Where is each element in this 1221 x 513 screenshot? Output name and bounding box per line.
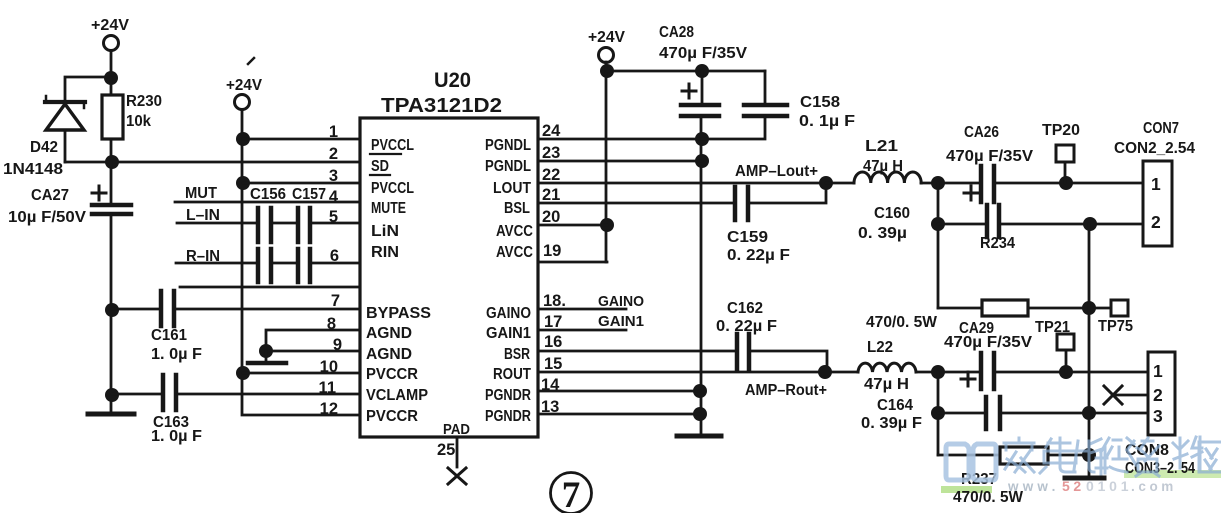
svg-text:9: 9 [333,336,342,354]
wire C159 to LOUT node [750,183,826,203]
capacitor CA28 [681,71,719,116]
wire to IC pin 3 [243,182,360,185]
svg-text:+24V: +24V [91,17,130,34]
svg-text:C164: C164 [877,397,913,414]
svg-text:C162: C162 [727,300,763,317]
wire 470 ohm resistor row (left channel) [938,307,982,310]
svg-text:12: 12 [320,400,338,418]
svg-text:47µ H: 47µ H [863,158,903,175]
junction node CA28 top [695,64,709,78]
wire IC pin 8 AGND [266,330,360,351]
power terminal +24V (third) [599,48,614,63]
svg-text:11: 11 [319,379,336,397]
svg-text:PGNDL: PGNDL [485,137,531,154]
wire IC pin 21 BSL to C159 [538,202,733,205]
svg-text:GAINO: GAINO [486,305,531,322]
junction node PGNDR pin14 [693,384,707,398]
wire AGND node to IC pin 9 [266,350,360,353]
svg-text:0. 22µ F: 0. 22µ F [716,318,777,335]
svg-text:MUT: MUT [185,185,218,202]
svg-text:RIN: RIN [371,244,399,261]
svg-text:C160: C160 [874,205,910,222]
wire IC pin 20 to column [538,224,607,227]
junction node C163 [105,388,119,402]
wire C164 row left [938,412,984,415]
svg-text:6: 6 [330,247,339,265]
wire +24V column to pin 12 [242,110,360,415]
svg-text:CON2_2.54: CON2_2.54 [1114,140,1195,157]
junction node AVCC pin20 [600,218,614,232]
svg-text:PAD: PAD [443,421,470,438]
resistor R230 [102,95,123,139]
junction node pin1 PVCCL [236,132,250,146]
svg-text:AMP–Rout+: AMP–Rout+ [745,382,827,399]
wire rail to C161 [112,308,159,311]
svg-text:R234: R234 [980,235,1015,252]
svg-text:.com: .com [1131,479,1177,494]
junction node SD [105,155,119,169]
svg-text:R–IN: R–IN [186,248,220,265]
svg-text:L22: L22 [867,339,893,356]
svg-text:CA26: CA26 [964,124,999,141]
wire R237 row [938,454,1000,457]
wire left ground rail [110,214,113,414]
capacitor (C156 lower section) [258,249,271,282]
wire C164 row to CON8 pin3 [1002,412,1148,415]
svg-text:C157: C157 [292,186,326,203]
capacitor C161 [161,291,174,326]
junction node AMP-Lout+ [819,176,833,190]
power terminal +24V (second) [235,95,250,110]
svg-text:24: 24 [542,122,561,140]
svg-text:3: 3 [1153,406,1163,426]
svg-text:15: 15 [544,355,562,373]
capacitor C162 [737,334,749,369]
svg-text:470µ F/35V: 470µ F/35V [659,45,748,62]
wire L21 to CA26 [921,182,979,185]
wire IC pin 18 GAINO stub [538,308,626,311]
inductor L21 [854,172,921,183]
capacitor C157 (top) [298,208,310,242]
junction node PGNDL pin23 [695,154,709,168]
svg-text:13: 13 [541,398,559,416]
test point TP20 [1056,145,1074,183]
wire output column lower [937,372,940,455]
svg-text:MUTE: MUTE [371,200,406,217]
svg-text:BSL: BSL [504,200,530,217]
svg-text:18.: 18. [543,292,566,310]
capacitor CA27 [92,186,131,214]
wire +24V terminal down to node [110,51,113,78]
junction node L21 out [931,176,945,190]
no-connect X at CON8 pin2 [1104,386,1148,404]
connector CON8 [1148,352,1175,435]
wire IC pin 22 LOUT to AMP-Lout+ [538,182,826,185]
svg-text:CA28: CA28 [659,24,694,41]
svg-text:CON7: CON7 [1143,120,1179,137]
wire C163 to IC pin 11 VCLAMP [178,393,360,396]
junction node AMP-Rout+ [818,365,832,379]
svg-text:U20: U20 [434,69,471,92]
svg-text:VCLAMP: VCLAMP [366,387,428,404]
svg-text:PVCCL: PVCCL [371,180,414,197]
svg-text:0. 22µ F: 0. 22µ F [727,247,790,264]
junction node pin10 PVCCR [236,366,250,380]
wire IC pin 14 to column [538,390,700,393]
svg-text:PGNDL: PGNDL [485,158,531,175]
svg-text:ROUT: ROUT [493,366,531,383]
svg-text:470µ F/35V: 470µ F/35V [944,334,1033,351]
svg-text:TP20: TP20 [1042,122,1080,139]
svg-text:19: 19 [543,242,561,260]
wire IC pin 16 BSR to C162 [538,350,735,353]
wire +24V to CA28 and C158 [607,70,765,73]
capacitor C163 [163,375,176,410]
wire between lower caps [273,262,296,265]
ground (AGND) [248,351,286,363]
svg-text:BSR: BSR [504,346,530,363]
svg-text:PVCCR: PVCCR [366,408,418,425]
svg-text:1: 1 [329,123,338,141]
ground (PGND column) [677,434,721,439]
sheet number circled 7 [551,473,592,513]
wire node to D42 cathode [65,77,111,100]
wire PAD pin 25 stub [456,437,459,467]
junction node C160 row [931,217,945,231]
svg-text:L–IN: L–IN [186,207,220,224]
svg-text:+24V: +24V [588,29,626,46]
wire to IC pin 10 [243,372,360,375]
svg-text:2: 2 [1153,385,1163,405]
junction node PGNDR pin13 [693,407,707,421]
svg-text:GAIN1: GAIN1 [486,325,531,342]
svg-text:1. 0µ F: 1. 0µ F [151,346,202,363]
svg-text:LiN: LiN [371,223,399,240]
watermark book logo [946,444,996,480]
junction node TP21 [1059,365,1073,379]
svg-text:TPA3121D2: TPA3121D2 [381,95,502,117]
junction node resistor/column [1082,301,1096,315]
svg-text:PGNDR: PGNDR [485,408,531,425]
wire IC pin 13 to column [538,413,700,416]
svg-text:PVCCR: PVCCR [366,366,418,383]
svg-text:TP21: TP21 [1035,319,1070,336]
inductor L22 [858,363,916,372]
wire R234 to CON7 pin2 [1001,223,1143,226]
wire C156 to C157 (top row) [273,222,296,225]
junction node AGND [259,344,273,358]
capacitor C164 row [986,397,1000,429]
wire lower cap to IC pin 6 RIN [312,262,360,265]
wire right return column [1088,224,1091,478]
svg-text:22: 22 [542,166,560,184]
wire CA26 to CON7 pin1 [996,182,1143,185]
wire L-IN to C156 [177,222,256,225]
svg-text:AGND: AGND [366,325,412,342]
test point TP75 [1111,300,1128,316]
svg-text:LOUT: LOUT [493,180,531,197]
capacitor C159 [735,187,748,220]
junction node L22 out [931,365,945,379]
wire R-IN to cap [176,262,256,265]
wire IC pin 17 GAIN1 stub [538,329,626,332]
svg-text:20: 20 [542,208,560,226]
wire PGND column [700,116,703,435]
svg-text:5: 5 [329,208,338,226]
wire output column upper [937,183,940,308]
wire R237 to column [1048,454,1089,457]
wire to L21 [826,182,854,185]
svg-text:470µ F/35V: 470µ F/35V [946,148,1034,165]
svg-text:0. 39µ: 0. 39µ [858,225,907,242]
svg-text:0101: 0101 [1086,478,1132,494]
svg-text:L21: L21 [865,138,898,155]
junction node at +24V / R230 / D42 [104,71,118,85]
svg-text:23: 23 [542,144,560,162]
svg-text:AGND: AGND [366,346,412,363]
svg-text:10k: 10k [126,113,151,130]
test point TP21 [1057,334,1074,372]
svg-text:2: 2 [1151,212,1161,232]
junction node TP20 [1059,176,1073,190]
junction node pin3 PVCCL [236,176,250,190]
svg-text:BYPASS: BYPASS [366,305,431,322]
wire L22 to CA29 [916,371,979,374]
watermark green highlight bar (left) [941,486,992,493]
svg-text:GAIN1: GAIN1 [598,313,644,330]
wire node to resistor R230 [110,78,113,95]
wire rail to C163 [112,393,161,396]
capacitor (C157 lower section) [298,249,310,282]
junction node C164 row [931,406,945,420]
wire IC pin 24 to column [538,138,702,141]
wire IC pin 23 to column [538,160,702,163]
svg-text:0. 1µ F: 0. 1µ F [799,113,855,130]
stray tick mark [248,58,254,64]
junction node right column mid [1082,406,1096,420]
wire +24V column to AVCC pins [605,62,608,262]
capacitor C158 [702,71,787,139]
svg-text:GAINO: GAINO [598,293,644,310]
svg-text:C161: C161 [151,327,187,344]
svg-text:PGNDR: PGNDR [485,387,531,404]
watermark green highlight bar (right) [1124,470,1221,478]
svg-text:CA27: CA27 [31,187,69,204]
capacitor CA26 [964,166,994,202]
svg-text:AVCC: AVCC [496,223,533,240]
svg-text:www.: www. [1007,479,1060,494]
wire to IC pin 1 [243,138,360,141]
svg-text:1: 1 [1151,174,1161,194]
svg-text:17: 17 [544,313,562,331]
resistor R237 [1000,447,1048,464]
wire SD node to IC pin 2 [65,161,360,164]
svg-text:AMP–Lout+: AMP–Lout+ [735,163,818,180]
wire C161 to IC pin 7 BYPASS [176,308,360,311]
wire C157 to IC pin 5 LIN [312,222,360,225]
svg-text:47µ H: 47µ H [864,376,909,393]
svg-text:D42: D42 [30,139,58,156]
svg-text:C156: C156 [250,186,286,203]
underline of SD pin2 [370,174,390,176]
wire C160 row left [938,223,985,226]
svg-text:7: 7 [331,292,340,310]
svg-text:1. 0µ F: 1. 0µ F [151,428,202,445]
svg-text:21: 21 [542,186,560,204]
svg-text:2: 2 [329,145,338,163]
svg-text:PVCCL: PVCCL [371,137,414,154]
diode D42 [45,96,85,162]
underline of PVCCL pin1 [370,153,401,155]
junction node R237/column [1082,448,1096,462]
wire MUT to IC pin 4 MUTE [175,201,360,204]
svg-text:0. 39µ F: 0. 39µ F [861,415,922,432]
svg-text:C159: C159 [727,229,768,246]
svg-text:1: 1 [1153,361,1163,381]
wire SD node down to CA27 [110,162,113,203]
wire IC pin 19 to column [538,261,607,264]
svg-text:25: 25 [437,441,455,459]
wire unnamed net above BYPASS [180,286,360,289]
junction node PGNDL pin24 [695,132,709,146]
ground (right column) [1065,476,1104,481]
wire CA29 to CON8 pin1 [996,371,1148,374]
junction node C161 [105,303,119,317]
svg-text:14: 14 [541,376,560,394]
resistor 470/0.5W (left channel) [982,300,1028,316]
svg-text:1N4148: 1N4148 [3,161,63,178]
svg-text:8: 8 [327,315,336,333]
svg-text:3: 3 [329,167,338,185]
junction node right column top [1083,217,1097,231]
svg-text:16: 16 [544,333,562,351]
svg-text:52: 52 [1062,478,1085,494]
capacitor R234 row [987,205,999,237]
svg-text:SD: SD [371,158,389,175]
junction node AVCC supply [600,64,614,78]
connector CON7 [1143,161,1172,246]
svg-text:R230: R230 [126,93,162,110]
svg-text:10µ F/50V: 10µ F/50V [8,209,87,226]
power terminal +24V (left) [104,36,119,51]
svg-text:C158: C158 [800,94,840,111]
no-connect X on PAD [448,468,466,484]
watermark www.520101.com [1007,478,1177,494]
svg-text:+24V: +24V [226,77,263,94]
wire IC pin 15 ROUT to L22 [538,371,858,374]
wire R230 bottom to SD node [110,139,113,162]
svg-text:7: 7 [562,475,581,513]
svg-text:10: 10 [320,358,338,376]
wire resistor to TP75 [1028,307,1111,310]
ground (left rail) [88,412,134,417]
watermark chinese characters [1004,437,1221,476]
svg-text:TP75: TP75 [1098,318,1133,335]
svg-text:AVCC: AVCC [496,244,533,261]
svg-text:470/0. 5W: 470/0. 5W [866,314,937,331]
capacitor CA29 [961,353,994,389]
wire C162 to ROUT node [751,351,827,372]
op-amp IC U20 TPA3121D2 body [360,118,538,437]
capacitor C156 (top) [258,208,271,242]
svg-text:4: 4 [329,188,339,206]
